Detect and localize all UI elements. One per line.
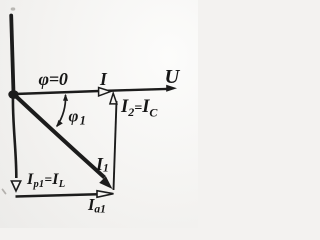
svg-text:U: U (165, 66, 181, 88)
node O origin blob (8, 90, 18, 99)
arc arrowhead top (63, 94, 68, 101)
axis top smudge (11, 7, 16, 10)
arrowhead I (open) (99, 88, 111, 96)
left lower faint speck (3, 190, 6, 194)
svg-text:I: I (99, 69, 108, 89)
arc phi1 (57, 95, 66, 126)
vector Ip1 (down) (13, 96, 16, 178)
wire U axis (15, 89, 167, 94)
vector Ia1 (bottom horizontal) (16, 194, 98, 196)
vector I1 (thick diagonal) (14, 94, 105, 178)
arc arrowhead bottom (56, 120, 63, 127)
arrowhead I2 (open, up) (110, 93, 117, 104)
paper background (0, 0, 198, 228)
vertical axis (11, 16, 13, 91)
arrowhead I1 (99, 176, 112, 189)
arrowhead Ip1 (open, down) (11, 181, 20, 191)
wire construction line I2 (114, 101, 117, 190)
svg-text:φ=0: φ=0 (39, 69, 68, 89)
arrowhead U (166, 85, 177, 92)
arrowhead Ia1 (open, right) (97, 191, 114, 198)
